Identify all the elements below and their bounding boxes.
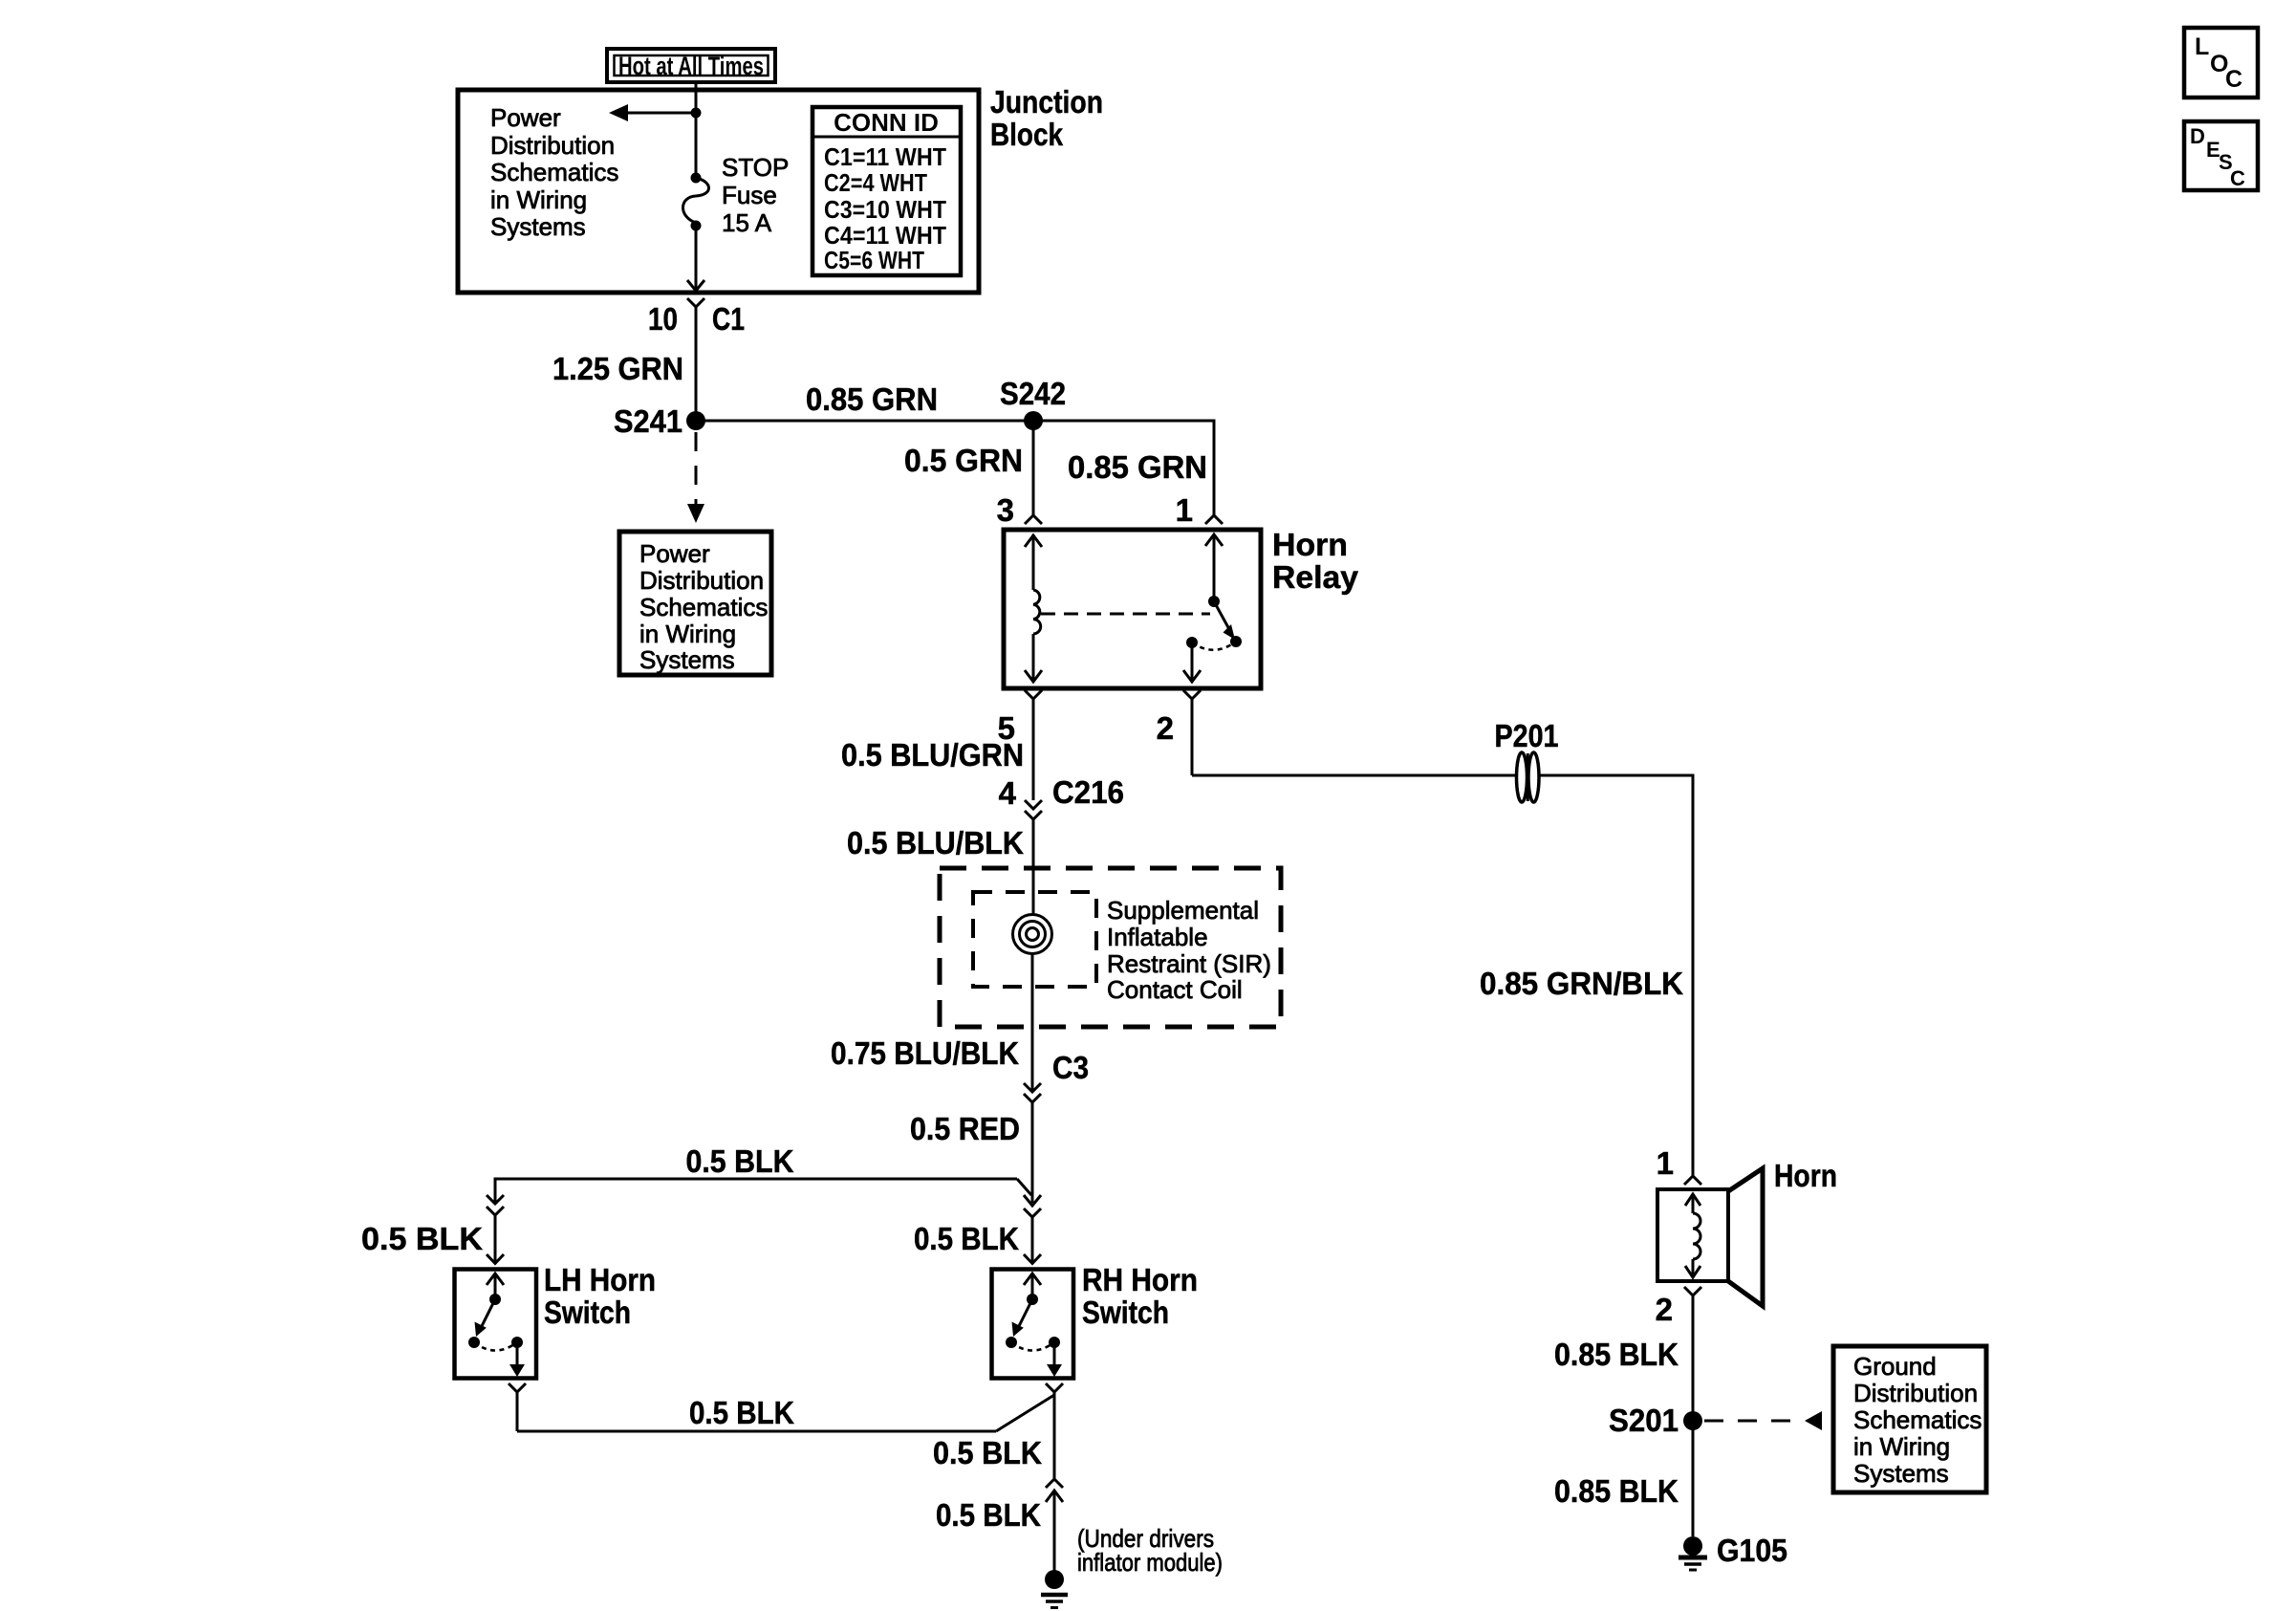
svg-text:0.5 BLU/GRN: 0.5 BLU/GRN [841, 737, 1024, 773]
svg-text:0.75 BLU/BLK: 0.75 BLU/BLK [831, 1035, 1019, 1071]
svg-text:CONN ID: CONN ID [834, 108, 939, 137]
node S241 [614, 403, 705, 439]
SIR label [1107, 896, 1271, 1004]
svg-text:Schematics: Schematics [639, 593, 768, 621]
pin 1 connector chevron [1205, 515, 1223, 524]
ground note text [1077, 1524, 1223, 1577]
connector 10 C1 below junction block [687, 298, 704, 421]
svg-text:C1=11 WHT: C1=11 WHT [824, 142, 946, 171]
RH switch mechanism [1006, 1274, 1062, 1377]
fuse STOP 15 A [683, 173, 709, 231]
svg-text:4: 4 [999, 775, 1017, 811]
svg-text:1: 1 [1176, 492, 1193, 528]
svg-text:0.85 BLK: 0.85 BLK [1554, 1473, 1679, 1509]
svg-text:Horn: Horn [1272, 527, 1348, 562]
RH horn switch box [992, 1270, 1074, 1379]
svg-text:Horn: Horn [1774, 1158, 1837, 1193]
svg-text:0.85 GRN: 0.85 GRN [1068, 449, 1207, 485]
svg-text:Ground: Ground [1853, 1352, 1937, 1381]
wire below spiral to C3 [1031, 954, 1034, 1092]
horn relay box [1004, 530, 1261, 688]
wire fuse to junction block bottom [695, 226, 698, 290]
RH horn switch label [1082, 1262, 1198, 1330]
horn pin 1 connector chevron [1684, 1176, 1701, 1185]
connector inline to inflator module ground [1046, 1479, 1063, 1579]
svg-text:0.85 BLK: 0.85 BLK [1554, 1337, 1679, 1372]
svg-text:C: C [2230, 166, 2245, 190]
svg-text:Relay: Relay [1272, 559, 1359, 595]
svg-text:0.85 GRN: 0.85 GRN [806, 381, 938, 417]
wire bottom horizontal [517, 1395, 1054, 1431]
relay coil [1025, 534, 1042, 682]
node S201 [1609, 1403, 1702, 1438]
SIR inner dashed box [973, 892, 1096, 987]
horn coil [1685, 1194, 1700, 1277]
svg-text:0.5 GRN: 0.5 GRN [904, 443, 1023, 478]
LH horn switch label [544, 1262, 656, 1330]
svg-text:Fuse: Fuse [722, 181, 777, 209]
svg-text:3: 3 [997, 492, 1014, 528]
connector C216 [1025, 800, 1042, 914]
horn relay label [1272, 527, 1359, 595]
wire S241 to S242 to relay pin 1 [696, 421, 1214, 515]
svg-text:0.5 BLK: 0.5 BLK [686, 1143, 794, 1179]
wire relay pin 2 to horn [1192, 775, 1693, 1176]
power distribution schematics box [619, 532, 771, 675]
svg-text:Junction: Junction [990, 84, 1103, 120]
svg-text:S241: S241 [614, 403, 682, 439]
svg-text:C1: C1 [712, 301, 745, 337]
relay dashed actuation line [1041, 613, 1210, 616]
svg-text:C216: C216 [1052, 774, 1124, 810]
LOC tab box [2184, 28, 2258, 98]
connector below LH switch [509, 1383, 526, 1431]
arrow at junction block bottom [687, 280, 704, 291]
svg-text:C5=6 WHT: C5=6 WHT [824, 246, 924, 274]
svg-text:Distribution: Distribution [639, 566, 764, 595]
junction block text [490, 103, 618, 241]
svg-text:S242: S242 [1000, 376, 1066, 411]
svg-text:0.5 BLK: 0.5 BLK [914, 1221, 1019, 1256]
LH switch mechanism [468, 1274, 525, 1377]
svg-text:D: D [2190, 124, 2205, 148]
svg-text:0.5 BLK: 0.5 BLK [933, 1435, 1042, 1470]
wire S242 down to relay pin 3 [1032, 421, 1035, 515]
wire horizontal to LH side [495, 1179, 1031, 1204]
CONN ID table [812, 107, 961, 275]
junction block box [458, 90, 979, 293]
svg-text:2: 2 [1157, 710, 1174, 746]
svg-text:Schematics: Schematics [1853, 1405, 1982, 1434]
arrow to power distribution schematics [609, 104, 696, 121]
svg-text:G105: G105 [1717, 1533, 1787, 1568]
svg-text:10: 10 [648, 301, 678, 337]
hot at all times box [607, 49, 775, 82]
pin 2 connector chevron [1183, 690, 1201, 775]
svg-text:Systems: Systems [1853, 1459, 1949, 1488]
dashed arrow S241 to power distribution box [687, 432, 704, 523]
svg-text:Power: Power [639, 539, 710, 568]
ground G105 [1679, 1533, 1787, 1570]
svg-text:Contact Coil: Contact Coil [1107, 975, 1243, 1004]
svg-text:0.5 BLK: 0.5 BLK [689, 1395, 794, 1430]
junction block label [990, 84, 1103, 152]
svg-text:1.25 GRN: 1.25 GRN [552, 351, 683, 386]
svg-text:C: C [2225, 66, 2242, 93]
svg-text:Supplemental: Supplemental [1107, 896, 1259, 925]
svg-text:Systems: Systems [639, 645, 735, 674]
svg-text:in Wiring: in Wiring [490, 185, 587, 214]
svg-text:P201: P201 [1495, 718, 1559, 753]
svg-text:Distribution: Distribution [1853, 1379, 1978, 1407]
svg-text:in Wiring: in Wiring [639, 620, 736, 648]
connector inline LH [487, 1195, 504, 1264]
horn pin 2 connector chevron [1684, 1287, 1701, 1536]
svg-text:Hot at All Times: Hot at All Times [618, 52, 764, 80]
svg-text:C2=4 WHT: C2=4 WHT [824, 168, 927, 197]
connector P201 [1495, 718, 1559, 802]
svg-text:Power: Power [490, 103, 561, 132]
svg-text:2: 2 [1656, 1292, 1673, 1327]
dashed arrow S201 to ground distribution box [1704, 1411, 1822, 1430]
SIR contact coil spiral [1013, 915, 1052, 954]
svg-text:LH Horn: LH Horn [544, 1262, 656, 1297]
svg-text:Distribution: Distribution [490, 131, 615, 160]
svg-text:0.85 GRN/BLK: 0.85 GRN/BLK [1480, 966, 1683, 1001]
svg-text:S201: S201 [1609, 1403, 1679, 1438]
svg-text:0.5 BLU/BLK: 0.5 BLU/BLK [847, 825, 1024, 860]
svg-text:STOP: STOP [722, 153, 789, 182]
svg-text:Systems: Systems [490, 212, 586, 241]
svg-text:Schematics: Schematics [490, 158, 618, 186]
node junction dot [691, 108, 702, 119]
ground distribution schematics box [1833, 1346, 1986, 1492]
svg-text:Switch: Switch [544, 1295, 631, 1330]
node S242 [1000, 376, 1066, 430]
svg-text:0.5 RED: 0.5 RED [910, 1111, 1020, 1146]
svg-text:1: 1 [1657, 1145, 1674, 1181]
svg-text:L: L [2195, 33, 2209, 60]
horn flare [1728, 1168, 1763, 1306]
svg-text:in Wiring: in Wiring [1853, 1432, 1950, 1461]
svg-text:C3=10 WHT: C3=10 WHT [824, 195, 946, 224]
pin 5 connector chevron [1025, 690, 1042, 800]
svg-text:inflator module): inflator module) [1077, 1548, 1223, 1577]
svg-text:0.5 BLK: 0.5 BLK [936, 1497, 1041, 1533]
svg-text:Restraint (SIR): Restraint (SIR) [1107, 949, 1271, 978]
fuse label [722, 153, 789, 237]
connector junction above RH switch [1024, 1195, 1041, 1264]
horn box [1657, 1189, 1728, 1281]
svg-text:0.5 BLK: 0.5 BLK [361, 1221, 483, 1256]
SIR outer dashed box [940, 868, 1281, 1027]
DESC tab box [2184, 121, 2258, 190]
LH horn switch box [455, 1270, 537, 1379]
svg-text:Switch: Switch [1082, 1295, 1169, 1330]
connector C3 [1024, 1083, 1041, 1203]
ground under drivers inflator module [1041, 1570, 1068, 1608]
wire from hot box into junction block [695, 82, 698, 180]
relay switch [1183, 534, 1242, 682]
svg-text:C3: C3 [1052, 1050, 1089, 1085]
svg-text:15 A: 15 A [722, 208, 772, 237]
svg-text:Block: Block [990, 117, 1064, 152]
svg-text:Inflatable: Inflatable [1107, 923, 1208, 951]
pin 3 connector chevron [1025, 515, 1042, 524]
connector below RH switch [1046, 1383, 1063, 1479]
svg-text:RH Horn: RH Horn [1082, 1262, 1198, 1297]
